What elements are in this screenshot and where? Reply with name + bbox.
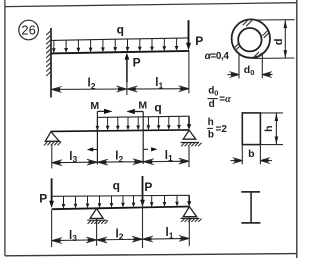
dimension d (tube)	[252, 20, 295, 59]
moment M couple (left, beam 2)	[87, 109, 113, 165]
svg-text:d: d	[209, 99, 215, 110]
svg-text:q: q	[117, 22, 124, 36]
svg-text:M: M	[90, 100, 99, 112]
task number badge 26	[19, 20, 39, 40]
wall fixed support (beam 1)	[46, 28, 51, 98]
dimension d0 (tube)	[228, 54, 273, 79]
formula h/b = 2	[207, 117, 227, 141]
svg-text:b: b	[248, 148, 254, 160]
pin support right (beam 3)	[181, 207, 202, 246]
svg-text:P: P	[133, 55, 141, 69]
force P upward at mid of beam 1	[125, 53, 130, 95]
dimension line beam 3 (l3 l2 l1)	[52, 201, 189, 249]
pin support right (beam 2)	[181, 130, 202, 146]
svg-text:q: q	[113, 179, 120, 193]
svg-text:h: h	[208, 117, 214, 128]
svg-text:d: d	[273, 39, 285, 46]
svg-text:b: b	[208, 130, 214, 141]
svg-text:h: h	[263, 125, 275, 131]
svg-text:P: P	[39, 191, 47, 205]
svg-text:P: P	[144, 180, 152, 194]
dimension line beam 1 (l2 + l1)	[51, 52, 189, 94]
force P downward at right end of beam 1	[186, 20, 191, 50]
svg-text:M: M	[138, 100, 147, 112]
dimension line beam 2 (l3 l2 l1)	[52, 144, 189, 168]
beam 1 (cantilever)	[51, 51, 189, 54]
svg-text:P: P	[195, 34, 203, 48]
I-beam section symbol	[241, 192, 260, 223]
force P at left end of beam 3	[49, 178, 54, 247]
svg-text:=2: =2	[216, 124, 228, 135]
svg-text:=α: =α	[219, 94, 231, 105]
svg-text:α=0,4: α=0,4	[205, 51, 230, 62]
pin support left (beam 2)	[44, 132, 61, 146]
force P at mid of beam 3	[140, 176, 145, 207]
beam 3	[52, 207, 190, 210]
dimension h (rectangle)	[260, 113, 283, 145]
tube cross-section	[232, 19, 270, 58]
dimension b (rectangle)	[231, 145, 273, 165]
distributed load q on beam 1	[51, 38, 188, 53]
rectangle cross-section	[242, 113, 260, 145]
svg-text:26: 26	[21, 22, 35, 37]
moment M couple (right, beam 2)	[126, 109, 157, 164]
formula d0/d = alpha	[208, 86, 232, 110]
svg-text:q: q	[154, 100, 161, 114]
pin support mid (beam 3)	[87, 209, 108, 246]
beam 2 (simply supported)	[51, 130, 189, 132]
distributed load q on beam 2	[96, 116, 192, 131]
distributed load q on beam 3	[52, 195, 192, 209]
